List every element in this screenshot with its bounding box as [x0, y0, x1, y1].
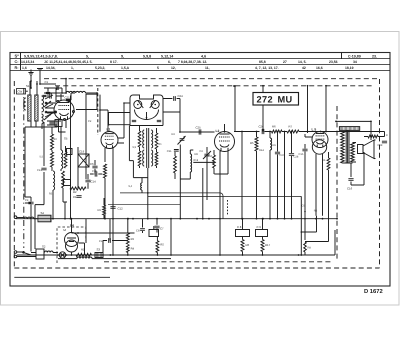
svg-text:R3: R3 — [131, 238, 135, 241]
osc trimmer block — [47, 120, 62, 127]
V1 extra caps — [43, 86, 63, 97]
AVC line 3 — [108, 203, 180, 205]
IF transformer — [129, 125, 162, 178]
svg-text:14,15,34: 14,15,34 — [21, 60, 34, 64]
valve V2 — [101, 132, 118, 149]
V3 bottom wires — [214, 151, 228, 219]
IF vertical to bus — [147, 168, 149, 220]
svg-text:C12: C12 — [118, 207, 124, 211]
svg-text:16,6: 16,6 — [316, 66, 323, 70]
antenna symbol — [37, 69, 43, 76]
svg-text:4,6: 4,6 — [201, 54, 206, 58]
svg-text:C·19,89: C·19,89 — [348, 54, 361, 58]
svg-text:R6: R6 — [314, 210, 318, 213]
svg-text:C10: C10 — [52, 138, 57, 141]
coil feed from shield — [65, 78, 67, 94]
shield dashed V2 — [97, 88, 99, 135]
svg-text:C16: C16 — [347, 187, 353, 191]
C12 — [110, 202, 123, 219]
V3 top wire — [224, 85, 236, 133]
rectifier shield dashed — [57, 227, 86, 263]
AVC line 2 — [148, 195, 301, 197]
feed x234 dot — [233, 85, 235, 87]
svg-text:1,6: 1,6 — [22, 66, 27, 70]
svg-text:C13: C13 — [37, 169, 42, 172]
bottom resistors — [236, 218, 271, 256]
svg-text:C21: C21 — [167, 150, 172, 153]
C16 coupling — [347, 152, 364, 191]
svg-text:12,: 12, — [171, 66, 176, 70]
V1 grid wires — [45, 108, 55, 113]
svg-text:14,34,: 14,34, — [46, 66, 55, 70]
svg-text:R6: R6 — [322, 159, 326, 162]
V1 cluster caps — [50, 93, 75, 101]
svg-text:S2: S2 — [42, 245, 46, 249]
svg-text:5,4: 5,4 — [129, 185, 133, 188]
svg-text:S1: S1 — [26, 84, 30, 88]
mains input — [14, 211, 74, 259]
S3 on HT bus — [95, 248, 103, 258]
svg-text:R15: R15 — [208, 155, 213, 158]
svg-text:R18: R18 — [194, 159, 199, 162]
valve V4 — [312, 132, 328, 155]
svg-text:34: 34 — [353, 60, 357, 64]
choke to bus — [129, 178, 143, 193]
V1 bottom wires — [59, 120, 67, 133]
svg-text:272 MU: 272 MU — [256, 95, 292, 105]
svg-text:L2: L2 — [216, 129, 220, 133]
svg-text:C 8: C 8 — [237, 225, 242, 229]
svg-text:C8: C8 — [136, 230, 140, 233]
V5 plate wires — [59, 243, 84, 255]
svg-text:5: 5 — [157, 66, 159, 70]
bottom right routing — [300, 180, 328, 256]
svg-text:C5: C5 — [302, 205, 306, 208]
R10 — [322, 152, 330, 180]
wire aerial coil to V2 — [44, 91, 108, 131]
svg-text:4, 7, 12, 13, 17.: 4, 7, 12, 13, 17. — [255, 66, 279, 70]
table line 3 — [10, 69, 390, 71]
svg-text:C24: C24 — [178, 94, 184, 98]
svg-text:R17: R17 — [265, 243, 271, 247]
speaker — [358, 140, 376, 159]
svg-text:5,5: 5,5 — [133, 146, 137, 149]
R1 on HT bus — [76, 248, 92, 257]
svg-text:6,: 6, — [168, 60, 171, 64]
svg-text:L 5: L 5 — [312, 128, 317, 132]
bottom left bus — [14, 276, 110, 278]
right edge column — [364, 132, 388, 148]
shield dashed bottom — [14, 267, 379, 269]
C18 — [90, 170, 102, 177]
svg-text:L1: L1 — [107, 128, 111, 132]
R9 — [98, 198, 106, 219]
feed x307 — [307, 85, 309, 133]
shield dashed bottom 2 — [104, 261, 333, 263]
svg-text:S3: S3 — [97, 248, 101, 252]
V3 dashed cathode — [227, 200, 229, 215]
svg-text:5,5: 5,5 — [40, 156, 44, 159]
V4 grid parts — [299, 144, 308, 212]
svg-text:11,: 11, — [205, 66, 210, 70]
svg-text:R4: R4 — [131, 248, 135, 251]
C7 — [154, 219, 164, 233]
svg-text:R2: R2 — [172, 133, 176, 136]
mid-left components — [70, 96, 98, 219]
AVC line rounded — [120, 193, 223, 219]
table text — [15, 53, 378, 70]
svg-text:C25: C25 — [196, 126, 202, 130]
title box 272 MU — [253, 93, 299, 106]
V2 vertical drops — [104, 158, 114, 219]
V1 top wire — [56, 94, 61, 101]
svg-text:D 1672: D 1672 — [364, 288, 383, 295]
coil corner box — [86, 94, 98, 100]
svg-text:R6: R6 — [246, 243, 250, 247]
svg-text:JC 11,25,41,44,48,30,50,45,1 5: JC 11,25,41,44,48,30,50,45,1 5. — [44, 60, 93, 64]
variable cap C23 — [200, 147, 212, 165]
svg-text:5,9,8: 5,9,8 — [143, 54, 151, 58]
HT bus — [17, 230, 335, 255]
valve V3 — [215, 132, 235, 152]
long verticals to bus — [179, 145, 207, 220]
svg-text:42: 42 — [302, 66, 306, 70]
table separators — [21, 53, 342, 71]
svg-text:8 17.: 8 17. — [110, 60, 118, 64]
wire C24 down — [179, 99, 181, 133]
anode bus — [234, 124, 385, 134]
bottom mid boxes — [99, 218, 164, 256]
svg-text:S5: S5 — [64, 137, 68, 141]
svg-text:5,9,55,12,41,5,6,7,8.: 5,9,55,12,41,5,6,7,8. — [24, 54, 58, 58]
feed x263 — [262, 85, 264, 132]
shield dashed mid right — [336, 106, 338, 262]
svg-text:R5: R5 — [250, 141, 254, 145]
svg-text:C21: C21 — [65, 96, 71, 100]
svg-text:5,23,2,: 5,23,2, — [95, 66, 105, 70]
shield dash-dot left 2 — [23, 88, 25, 248]
V1 col wire — [56, 96, 64, 102]
V5 top wire — [71, 218, 73, 227]
svg-text:R8: R8 — [308, 247, 312, 250]
HT bus dots — [57, 254, 299, 256]
svg-text:14, 5.: 14, 5. — [298, 60, 307, 64]
grid wire to V3 — [163, 112, 215, 135]
svg-text:C18: C18 — [92, 170, 97, 173]
feed x326 — [325, 85, 327, 132]
left column resistors — [25, 122, 72, 252]
svg-text:1,: 1, — [71, 66, 74, 70]
shield dashed top 2 — [55, 85, 374, 87]
svg-text:5,12,14: 5,12,14 — [161, 54, 174, 58]
heater line — [58, 257, 171, 259]
V2 anode wire — [118, 103, 124, 143]
svg-text:C3: C3 — [25, 199, 29, 202]
svg-text:CW: CW — [18, 90, 23, 94]
valve V5 — [64, 227, 79, 256]
table line 1 — [10, 58, 390, 60]
svg-text:C14: C14 — [91, 180, 97, 184]
detector parts — [167, 133, 215, 179]
table line 2 — [10, 63, 390, 65]
speaker feed wires — [335, 121, 372, 141]
svg-text:R8: R8 — [195, 153, 199, 156]
svg-text:R7: R7 — [289, 124, 293, 128]
svg-text:85,8: 85,8 — [259, 60, 266, 64]
svg-text:R1: R1 — [81, 248, 85, 252]
svg-text:C2: C2 — [88, 120, 92, 123]
svg-text:23,56: 23,56 — [329, 60, 338, 64]
shield dashed right — [379, 79, 381, 268]
svg-text:R14: R14 — [259, 149, 264, 152]
page border — [10, 53, 390, 287]
wire antenna down — [31, 76, 40, 89]
V2 grid frame — [108, 113, 130, 126]
earth bus — [16, 218, 338, 220]
bus vertical drops — [242, 132, 299, 219]
cap C24 — [163, 94, 183, 101]
svg-text:R6: R6 — [273, 144, 277, 147]
svg-text:9,: 9, — [121, 54, 124, 58]
svg-text:C1: C1 — [73, 195, 77, 199]
svg-text:C2: C2 — [200, 150, 204, 153]
svg-text:R9: R9 — [98, 209, 102, 212]
shield dashed left — [13, 81, 15, 268]
svg-text:C6: C6 — [90, 162, 94, 166]
svg-text:S4: S4 — [41, 211, 45, 215]
svg-text:R6: R6 — [272, 124, 276, 128]
dial lamp — [59, 252, 65, 258]
top-left link wires — [25, 121, 57, 203]
V4 wires — [305, 134, 323, 216]
svg-text:C7: C7 — [160, 227, 164, 231]
wire V5 to boxes — [72, 232, 135, 234]
svg-text:C29: C29 — [378, 144, 383, 147]
svg-text:7 8,94,28,/7,38. 12.: 7 8,94,28,/7,38. 12. — [178, 60, 207, 64]
svg-text:C2: C2 — [99, 240, 103, 243]
svg-text:R:: R: — [15, 66, 19, 70]
svg-text:Sº: Sº — [15, 53, 20, 58]
svg-text:C15: C15 — [299, 153, 304, 156]
aerial coil cluster — [17, 80, 57, 129]
misc verticals — [86, 219, 220, 255]
V2 bottom wires — [105, 148, 113, 162]
svg-text:C27: C27 — [280, 154, 285, 157]
valve V1 — [54, 100, 75, 121]
svg-text:1,5,A: 1,5,A — [121, 66, 130, 70]
svg-text:U: U — [64, 228, 66, 232]
earth symbol — [28, 70, 33, 76]
svg-text:R5: R5 — [160, 244, 164, 247]
svg-text:18,19: 18,19 — [345, 66, 354, 70]
shield dashed top 1 — [44, 78, 378, 80]
svg-text:C:: C: — [15, 60, 19, 64]
tuning gang — [123, 95, 163, 126]
svg-text:23.: 23. — [372, 54, 377, 58]
svg-text:5,: 5, — [86, 54, 89, 58]
svg-text:C19: C19 — [79, 150, 85, 154]
svg-text:27: 27 — [283, 60, 287, 64]
V3 side parts — [208, 150, 216, 174]
output transformer — [339, 127, 359, 163]
svg-text:C 9: C 9 — [257, 225, 262, 229]
svg-text:C1: C1 — [45, 80, 49, 84]
svg-text:R: R — [386, 134, 388, 137]
svg-text:R2: R2 — [73, 190, 77, 194]
